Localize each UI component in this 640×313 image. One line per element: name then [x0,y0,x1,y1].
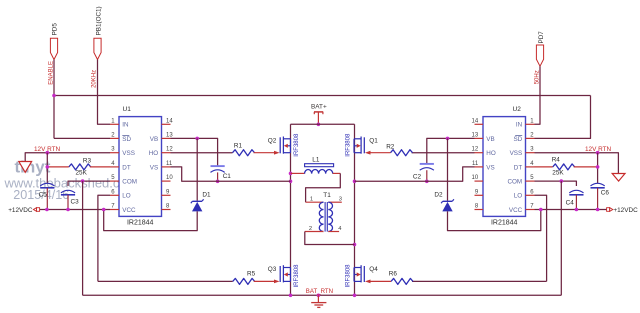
wire VB U2 to C2 [427,138,475,164]
wire ENABLE vertical from PD5 [53,60,55,139]
svg-text:IN: IN [122,122,129,129]
svg-text:Q4: Q4 [369,266,378,273]
pin 2 stub U2 [526,137,535,139]
svg-text:1: 1 [310,197,313,203]
resistor R3 [69,164,91,170]
junction C1 bottom [216,180,220,184]
svg-text:COM: COM [122,179,137,186]
svg-text:3: 3 [339,196,342,202]
wire C6 branch vertical [597,153,599,184]
svg-text:VB: VB [150,136,158,143]
svg-text:50Hz: 50Hz [534,70,540,84]
transistor Q2 [279,137,281,153]
wire 12V RTN rail left (VSS) [25,153,110,162]
svg-text:Q2: Q2 [268,138,277,145]
transformer T1 pin4 lead [328,231,339,233]
pin 9 stub U1 [162,194,171,196]
svg-text:LO: LO [514,193,523,200]
svg-text:PD7: PD7 [538,31,545,44]
pin 9 stub U2 [475,194,484,196]
wire +12VDC rail left [40,209,110,211]
transistor Q3 [279,266,281,282]
svg-text:R3: R3 [83,158,92,165]
capacitor C5 [40,183,54,186]
svg-text:SD: SD [513,136,522,143]
svg-text:R1: R1 [234,142,243,149]
junction C4 at +12VDC [575,208,579,212]
transistor Q4 [363,266,365,282]
pin 10 stub U1 [162,180,171,182]
wire ENABLE top rail [54,95,591,97]
svg-text:12: 12 [472,147,479,153]
pin 14 stub U2 [475,123,484,125]
svg-text:IRF3808: IRF3808 [345,264,351,288]
junction C6 at +12VDC [596,208,600,212]
svg-text:+12VDC: +12VDC [8,207,33,214]
capacitor C3 [61,190,75,193]
svg-text:VCC: VCC [122,207,136,214]
pin 7 stub U1 [110,209,119,211]
svg-text:L1: L1 [312,157,320,164]
junction phase A at L1 [289,172,293,176]
svg-text:2: 2 [309,226,312,232]
pin 7 stub U2 [526,209,535,211]
connector PD5 [50,38,57,59]
svg-text:R6: R6 [389,271,398,278]
svg-text:DT: DT [514,164,523,171]
svg-text:BAT_RTN: BAT_RTN [306,288,333,295]
pin 11 stub U2 [475,166,484,168]
svg-text:Q1: Q1 [369,138,378,145]
junction VSS at C6 branch [596,151,600,155]
pin 5 stub U1 [110,180,119,182]
svg-text:14: 14 [472,118,479,124]
svg-text:C5: C5 [39,191,48,198]
svg-text:VB: VB [486,136,494,143]
pin 13 stub U2 [475,137,484,139]
wire LO U2 down to R6 [535,195,547,281]
svg-text:PB1(OC1): PB1(OC1) [96,6,103,35]
transformer T1 pin2 lead [305,231,324,233]
transistor Q1 [363,137,365,153]
svg-text:BAT+: BAT+ [311,103,327,110]
resistor R5 [98,280,233,282]
svg-text:IRF3808: IRF3808 [294,264,300,288]
capacitor C4 [569,190,583,193]
op-amp driver U1 IR21844 body [119,117,162,217]
pin 4 stub U1 [110,166,119,168]
pin 4 stub U2 [526,166,535,168]
wire COM U2 to C4 [535,181,577,186]
junction BAT+ rail [317,123,321,127]
svg-text:HO: HO [149,150,159,157]
svg-text:C4: C4 [566,199,575,206]
svg-text:R5: R5 [247,271,256,278]
pin 11 stub U1 [162,166,171,168]
power symbol 12V RTN right arrow [612,174,625,182]
svg-text:HO: HO [486,150,496,157]
wire ENABLE right drop [535,96,591,139]
transformer T1 pin3 lead [328,201,342,203]
svg-text:U1: U1 [123,106,132,113]
wire BAT_RTN rail [83,294,562,296]
junction Q3 source [289,294,293,298]
gate arrow Q2 [274,151,280,155]
svg-text:VSS: VSS [510,150,523,157]
wire COM left to BAT_RTN [82,181,84,295]
svg-text:11: 11 [472,161,479,167]
junction Q4 source [353,294,357,298]
svg-text:SD: SD [122,136,131,143]
wire C5 branch vertical [46,153,48,184]
capacitor C1 [211,165,225,167]
svg-text:VS: VS [486,164,494,171]
pin 8 stub U2 [475,209,484,211]
junction R4 tap [596,165,600,169]
wire COM U1 to C3 [68,181,110,186]
pin 6 stub U2 [526,194,535,196]
junction VSS at C5 branch [46,151,50,155]
diode D1 cathode wire [196,138,198,200]
svg-text:VCC: VCC [509,207,523,214]
svg-text:VSS: VSS [122,150,135,157]
op-amp driver U2 IR21844 body [483,117,526,217]
gate arrow Q1 [365,151,371,155]
diode D2 [442,202,452,212]
connector PB1(OC1) [94,38,101,59]
pin 3 stub U1 [110,152,119,154]
svg-text:PD5: PD5 [52,23,59,36]
wire 20KHz from PB1 to U1 IN [98,60,111,125]
pin 6 stub U1 [110,194,119,196]
svg-text:C2: C2 [413,173,422,180]
wire VS U2 jog [355,167,475,181]
diode D2 cathode wire [447,138,449,200]
svg-text:IR21844: IR21844 [491,220,518,227]
pin 3 stub U2 [526,152,535,154]
svg-text:13: 13 [472,132,479,138]
pin 13 stub U1 [162,137,171,139]
capacitor C2 [420,163,434,165]
wire T1 pin2 to phase B [305,232,355,245]
junction phase A at VS wire [289,180,293,184]
svg-text:12: 12 [166,147,173,153]
transformer T1 core [324,202,326,232]
wire ENABLE to U1 SD [54,137,110,139]
svg-text:25K: 25K [552,170,564,177]
junction phase B at VS wire [353,180,357,184]
port +12VDC right [607,208,610,212]
wire 12V RTN rail right (VSS) [535,153,619,174]
pin 1 stub U2 [526,123,535,125]
junction R3 tap [46,165,50,169]
svg-text:DT: DT [122,164,131,171]
svg-text:R4: R4 [552,156,561,163]
gate arrow Q3 [274,280,280,284]
svg-text:ENABLE: ENABLE [48,61,54,85]
pin 12 stub U2 [475,152,484,154]
wire COM right to BAT_RTN [560,181,562,295]
junction VB at D1 [195,137,199,141]
junction COM right drop [560,179,564,183]
wire D1 anode to VCC loop [104,210,198,231]
svg-text:13: 13 [166,132,173,138]
svg-text:LO: LO [122,193,131,200]
svg-text:IN: IN [516,122,523,129]
svg-text:+12VDC: +12VDC [613,207,638,214]
transformer T1 primary winding [319,202,323,231]
svg-text:20KHz: 20KHz [92,70,98,88]
transformer T1 pin1 lead [306,201,324,203]
resistor R4 [553,164,575,170]
port +12VDC left [33,208,36,212]
pin 14 stub U1 [162,123,171,125]
junction COM left drop [81,179,85,183]
wire +12VDC rail right [535,209,607,211]
capacitor C6 [591,183,605,186]
wire L1 to T1 pin1 [306,173,341,202]
junction C3 at +12VDC [66,208,70,212]
svg-text:C1: C1 [223,173,232,180]
svg-text:14: 14 [166,118,173,124]
diode D1 [192,202,202,212]
svg-text:25K: 25K [76,170,88,177]
junction C2 bottom [425,180,429,184]
junction bootstrap right at +12VDC [539,208,543,212]
svg-text:IRF3808: IRF3808 [294,133,300,157]
svg-text:D1: D1 [202,192,211,199]
inductor L1 winding [291,172,305,174]
svg-text:T1: T1 [323,192,331,199]
pin 8 stub U1 [162,209,171,211]
svg-text:C6: C6 [601,189,610,196]
junction bootstrap left at +12VDC [102,208,106,212]
wire drain rail BAT+ [291,123,355,125]
svg-text:IRF3808: IRF3808 [345,133,351,157]
pin 1 stub U1 [110,123,119,125]
junction VB at D2 [446,137,450,141]
pin 12 stub U1 [162,152,171,154]
svg-text:C3: C3 [71,198,80,205]
inductor L1 core bar [305,164,334,167]
pin 10 stub U2 [475,180,484,182]
svg-text:Q3: Q3 [268,266,277,273]
svg-text:tinyt: tinyt [15,158,51,177]
gate arrow Q4 [365,280,371,284]
wire D2 anode to VCC loop [448,210,541,231]
svg-text:U2: U2 [513,106,522,113]
transformer T1 secondary winding [328,202,332,231]
resistor R1 [171,152,233,154]
pin 2 stub U1 [110,137,119,139]
junction ENABLE at PD5 drop [52,94,56,98]
resistor R2 [412,152,475,154]
wire 50Hz from PD7 to U2 IN [535,66,541,124]
wire LO U1 down to R5 [98,195,110,281]
power symbol 12V RTN left arrow [19,162,32,173]
connector PD7 [536,45,543,66]
svg-text:10: 10 [166,175,173,181]
svg-text:COM: COM [507,179,522,186]
svg-text:R2: R2 [386,143,395,150]
wire VS U1 jog [171,167,291,181]
wire phase node A vertical [290,124,292,295]
resistor R6 [412,280,547,282]
svg-text:10: 10 [472,175,479,181]
junction phase B at T1 pin2 [353,243,357,247]
svg-text:VS: VS [150,164,158,171]
svg-text:D2: D2 [434,192,443,199]
power symbol BAT+ [314,111,323,113]
ground symbol BAT_RTN [317,295,319,302]
pin 5 stub U2 [526,180,535,182]
wire VB U1 to C1 [171,138,218,166]
wire phase node B vertical [354,124,356,295]
svg-text:IR21844: IR21844 [127,220,154,227]
junction BAT_RTN ground [317,294,321,298]
svg-text:11: 11 [166,161,173,167]
junction C5 at +12VDC [45,208,49,212]
